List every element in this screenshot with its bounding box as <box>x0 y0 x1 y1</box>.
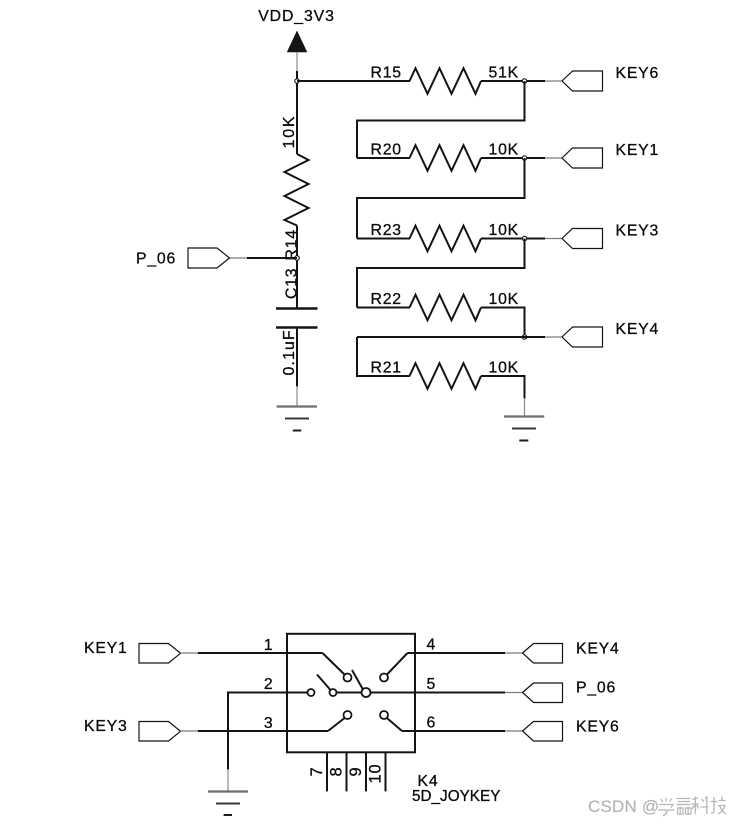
svg-text:KEY4: KEY4 <box>616 321 660 338</box>
wire KEY3 to pin 3 <box>181 730 288 732</box>
svg-text:0.1uF: 0.1uF <box>281 329 298 375</box>
svg-text:9: 9 <box>347 767 365 777</box>
ground (below C13) <box>277 407 317 431</box>
node VDD junction <box>295 79 299 83</box>
resistor R21 <box>410 363 482 389</box>
switch SW6 (pin 6) <box>380 711 415 731</box>
wire pin 5 to P_06 port <box>415 692 523 694</box>
svg-text:10K: 10K <box>489 360 520 377</box>
wire C13 to ground <box>296 328 298 407</box>
wire VDD to R15 <box>297 80 410 82</box>
watermark glyph 学 <box>658 798 675 816</box>
svg-text:C13: C13 <box>284 268 301 299</box>
svg-text:P_06: P_06 <box>576 680 616 697</box>
watermark CSDN <box>588 797 659 816</box>
svg-text:10: 10 <box>367 764 385 784</box>
resistor R15 <box>410 68 482 94</box>
wire pin 6 to KEY6 port <box>415 730 523 732</box>
wire R14 to capacitor C13 <box>296 226 298 309</box>
wire left lead R20 <box>357 157 410 159</box>
svg-text:3: 3 <box>264 715 274 732</box>
svg-text:6: 6 <box>427 715 437 732</box>
component K4 body <box>287 634 415 753</box>
svg-text:7: 7 <box>308 767 326 777</box>
svg-text:51K: 51K <box>489 65 520 82</box>
port KEY6 (top) <box>562 71 603 91</box>
wire chain KEY6 to R20 <box>357 81 525 158</box>
wire KEY1 to pin 1 <box>181 652 288 654</box>
port KEY4 (top) <box>562 327 603 347</box>
svg-text:KEY1: KEY1 <box>616 142 660 159</box>
power symbol VDD_3V3 <box>287 31 308 82</box>
wire ground lead (bottom) <box>227 769 229 791</box>
node KEY3 junction <box>522 236 526 240</box>
svg-text:10K: 10K <box>489 222 520 239</box>
capacitor C13 <box>276 309 318 328</box>
wire KEY4 row <box>357 336 562 338</box>
pin 9 <box>365 752 367 791</box>
wire pin 2 to ground <box>228 693 287 770</box>
svg-text:R21: R21 <box>371 360 402 377</box>
resistor R22 <box>410 295 482 321</box>
wire chain KEY3 to R22 <box>357 239 525 308</box>
svg-text:8: 8 <box>328 767 346 777</box>
wire R15 to KEY6 port <box>481 80 562 82</box>
svg-text:KEY6: KEY6 <box>576 719 620 736</box>
svg-text:4: 4 <box>427 637 437 654</box>
pin 10 <box>385 752 387 791</box>
wire R23 to KEY3 port <box>481 238 562 240</box>
svg-text:10K: 10K <box>489 142 520 159</box>
wire left lead R22 <box>357 307 410 309</box>
port KEY3 (bottom) <box>139 722 181 742</box>
port KEY6 (bottom) <box>523 722 563 742</box>
node KEY4 junction <box>522 335 526 339</box>
port KEY1 (top) <box>562 148 603 168</box>
svg-text:5D_JOYKEY: 5D_JOYKEY <box>412 788 500 805</box>
port P_06 (bottom) <box>523 683 563 703</box>
ground (below R21) <box>504 417 544 441</box>
resistor R20 <box>410 145 482 171</box>
svg-text:2: 2 <box>264 676 274 693</box>
port KEY1 (bottom) <box>139 644 181 664</box>
wire pin 4 to KEY4 port <box>415 652 523 654</box>
svg-text:VDD_3V3: VDD_3V3 <box>258 8 335 25</box>
port KEY3 (top) <box>562 229 603 249</box>
node P_06 junction <box>295 256 300 261</box>
svg-text:1: 1 <box>264 637 274 654</box>
wire VDD vertical to R14 <box>296 81 298 154</box>
switch SW3 (pin 3) <box>287 711 352 731</box>
wire R21 to ground <box>481 376 525 417</box>
wire left lead R23 <box>357 238 410 240</box>
svg-text:R20: R20 <box>371 142 402 159</box>
pin 8 <box>346 752 348 791</box>
watermark glyph 科 <box>692 796 709 814</box>
svg-text:R15: R15 <box>371 65 402 82</box>
port P_06 (left) <box>188 248 230 268</box>
switch SW4 (pin 4) <box>380 653 415 682</box>
resistor R23 <box>410 226 482 252</box>
wire P_06 <box>230 257 298 259</box>
svg-text:10K: 10K <box>489 291 520 308</box>
resistor R14 (vertical) <box>285 154 309 226</box>
wire chain KEY1 to R23 <box>357 158 525 239</box>
wire KEY4 row down to R21 <box>357 337 410 376</box>
wire R22 right lead down <box>481 308 525 338</box>
watermark glyph 技 <box>711 797 727 815</box>
svg-text:5: 5 <box>427 676 437 693</box>
svg-text:10K: 10K <box>281 115 298 149</box>
svg-text:CSDN @: CSDN @ <box>588 797 659 816</box>
wire R20 to KEY1 port <box>481 157 562 159</box>
svg-text:KEY3: KEY3 <box>84 718 128 735</box>
svg-text:KEY6: KEY6 <box>616 65 660 82</box>
node KEY1 junction <box>522 156 526 160</box>
switch SW1 (pin 1) <box>287 653 352 682</box>
svg-text:KEY1: KEY1 <box>84 640 128 657</box>
svg-text:KEY4: KEY4 <box>576 641 620 658</box>
switch common (pin 2 row) <box>287 670 415 697</box>
svg-text:R22: R22 <box>371 291 402 308</box>
svg-text:R23: R23 <box>371 222 402 239</box>
pin 7 <box>326 752 328 791</box>
svg-text:KEY3: KEY3 <box>616 223 660 240</box>
node KEY6 junction <box>522 79 526 83</box>
ground (bottom section) <box>208 792 248 816</box>
port KEY4 (bottom) <box>523 644 563 664</box>
svg-text:P_06: P_06 <box>136 251 176 268</box>
watermark glyph 蠡 <box>677 799 692 816</box>
